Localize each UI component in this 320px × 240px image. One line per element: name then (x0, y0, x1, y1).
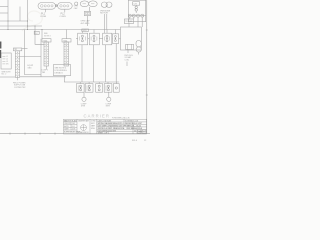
wire (0, 76, 15, 78)
wire (0, 29, 121, 31)
label TB2 top (14, 49, 17, 51)
wire (64, 76, 66, 83)
scan crease (22, 11, 42, 31)
wire (89, 7, 91, 11)
wire (0, 20, 28, 22)
note box (53, 65, 70, 76)
svg-text:4-78: 4-78 (72, 129, 75, 131)
capacitor C1 (84, 11, 90, 15)
wire (133, 17, 135, 19)
wire (137, 17, 139, 27)
terminal strip TB4 (62, 39, 71, 66)
wire (0, 12, 8, 14)
wire (129, 17, 131, 19)
wire (76, 38, 78, 40)
title block (64, 113, 147, 134)
wire (105, 45, 107, 82)
svg-text:CONN: CONN (60, 16, 67, 18)
label note (55, 67, 68, 74)
label OFM (81, 20, 91, 25)
relay R1 (96, 84, 103, 93)
wire (88, 38, 90, 40)
wire (141, 17, 143, 27)
black edge mark (0, 42, 1, 59)
wire (64, 9, 66, 12)
wire (81, 45, 83, 82)
switch HPS (78, 33, 88, 45)
wire (66, 30, 68, 39)
svg-text:38EH: 38EH (138, 132, 142, 134)
label CB (2, 71, 12, 75)
connector PL2 (58, 3, 73, 10)
heater CH1 (76, 84, 84, 93)
svg-text:CH: CH (134, 3, 138, 5)
wire (106, 30, 108, 34)
wire (103, 14, 105, 33)
label GND (28, 65, 34, 69)
svg-text:L2: L2 (6, 59, 8, 61)
wire (0, 25, 42, 27)
wire (126, 62, 128, 67)
wire (114, 30, 116, 34)
capacitor C2 (75, 2, 78, 5)
wire (115, 44, 117, 83)
page number (132, 140, 147, 142)
svg-text:L1: L1 (6, 56, 8, 58)
svg-text:PL1: PL1 (41, 13, 46, 16)
label C2 (74, 6, 78, 10)
wire (45, 9, 47, 12)
solenoid RVS (136, 40, 141, 52)
wire (93, 30, 95, 34)
svg-text:CHK BY: CHK BY (64, 123, 71, 125)
wire (22, 48, 28, 50)
label PL1 (40, 13, 47, 19)
label TB2 (13, 82, 26, 88)
svg-text:FIG 4: FIG 4 (132, 140, 138, 142)
switch TDR (113, 34, 119, 44)
wire (45, 66, 47, 70)
svg-text:CARRIER AIR: CARRIER AIR (78, 119, 90, 122)
wire (20, 55, 41, 57)
svg-text:40/5 MFD: 40/5 MFD (81, 23, 90, 25)
wire (128, 24, 130, 28)
wire (86, 16, 88, 26)
wire (93, 45, 95, 82)
contactor CC1 (85, 84, 93, 93)
svg-text:APPD: APPD (64, 125, 69, 128)
relay DR (126, 44, 134, 49)
label HPS (82, 29, 89, 32)
wire (25, 30, 41, 75)
relay R2 (113, 84, 119, 93)
svg-text:COPPER TB2: COPPER TB2 (14, 87, 25, 89)
wire (0, 6, 8, 8)
motor IFM (101, 2, 112, 7)
svg-text:MTR: MTR (81, 106, 86, 108)
wire (81, 31, 83, 33)
svg-text:D.K.: D.K. (72, 126, 76, 128)
svg-text:50: 50 (134, 130, 136, 132)
svg-text:J.M.: J.M. (72, 123, 76, 125)
wire (64, 81, 119, 83)
wire (19, 7, 21, 22)
label RVS (125, 55, 135, 62)
wire (7, 0, 9, 30)
terminal strip TB3 (42, 39, 51, 66)
control board CB (1, 53, 11, 69)
wire (41, 30, 43, 39)
svg-text:PL2: PL2 (61, 13, 66, 16)
svg-text:MADE BY R.A.B.: MADE BY R.A.B. (64, 119, 77, 122)
wire (27, 0, 29, 30)
svg-text:MTR: MTR (106, 106, 111, 108)
connector PL1 (38, 3, 56, 10)
node A (55, 5, 57, 7)
wire (119, 38, 121, 40)
label IFM (100, 10, 111, 14)
svg-text:01: 01 (143, 132, 145, 134)
wire (20, 76, 66, 78)
svg-text:GND: GND (28, 67, 33, 69)
svg-text:DETAILS: DETAILS (55, 71, 64, 74)
label PL2 (60, 13, 67, 19)
junction dots (8, 21, 43, 31)
switch DFT (103, 33, 112, 45)
wire (127, 50, 129, 54)
wire (40, 39, 42, 77)
contactor C (128, 0, 145, 22)
svg-text:L3: L3 (6, 61, 8, 63)
wire (35, 26, 44, 44)
transformer TRAN (121, 27, 142, 50)
label TB3 (42, 70, 49, 75)
motor OFM (80, 1, 97, 7)
svg-text:NO. 2: NO. 2 (2, 74, 7, 76)
wire (80, 82, 116, 84)
contactor CC2 (104, 84, 112, 93)
wire (106, 14, 108, 30)
label CM1 (81, 104, 87, 108)
svg-text:38EH: 38EH (91, 126, 95, 128)
wire (16, 77, 18, 80)
wire (111, 38, 114, 40)
motor CM1 (82, 92, 86, 101)
switch LPS (89, 33, 99, 45)
label note2 (44, 33, 51, 37)
label TRAN (124, 19, 133, 24)
svg-text:TB2: TB2 (14, 49, 17, 51)
wire (99, 38, 102, 40)
svg-text:CONN: CONN (40, 16, 47, 18)
sheet border (0, 0, 150, 135)
svg-text:NOTE 3: NOTE 3 (44, 35, 51, 37)
svg-text:CARRIER: CARRIER (84, 113, 111, 118)
motor CM2 (107, 92, 111, 101)
label relay box (34, 31, 39, 35)
terminal strip TB2 (13, 48, 21, 77)
label CM2 (106, 104, 112, 108)
wire (56, 5, 58, 7)
svg-text:UNIT: UNIT (91, 123, 95, 125)
wire (138, 52, 140, 54)
